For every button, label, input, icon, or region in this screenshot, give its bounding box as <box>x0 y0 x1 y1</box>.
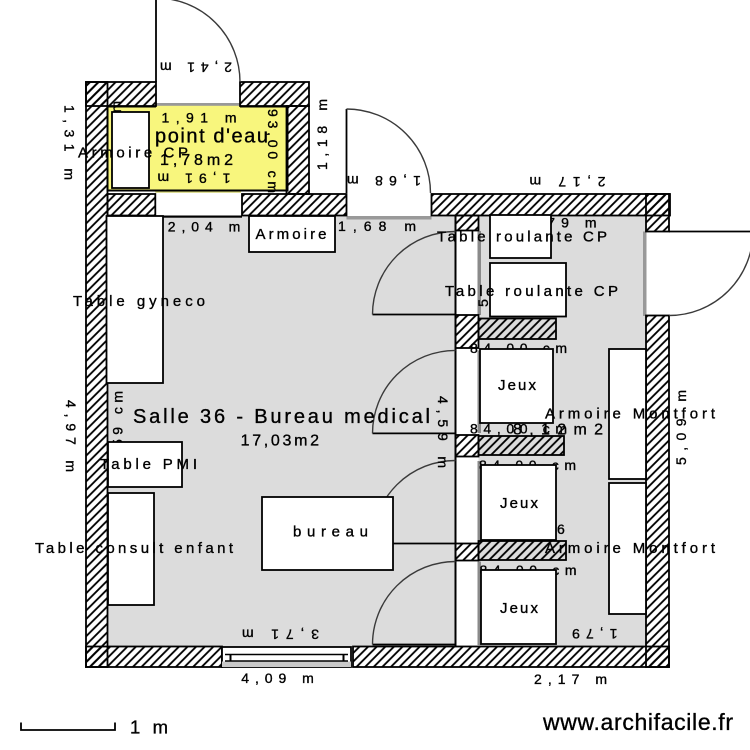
wall: bottom right of window <box>353 647 669 668</box>
furniture: armoire CP box <box>112 112 149 188</box>
door top-left: arc <box>156 0 240 82</box>
door middle 4: leaf <box>373 644 456 646</box>
room floor: point d'eau (yellow) <box>108 106 287 191</box>
door right: arc <box>669 232 750 316</box>
wall: partition band 2 <box>479 436 565 455</box>
furniture: jeux box 1 <box>480 349 553 423</box>
threshold line: middle wall door 2 <box>478 351 482 434</box>
wall: protrusion right <box>287 106 310 194</box>
svg-text:1 m: 1 m <box>130 717 168 738</box>
wall: top-left segment A <box>86 82 156 106</box>
svg-text:Jeux: Jeux <box>500 600 539 617</box>
wall: right below door <box>646 316 669 668</box>
wall: partition band 3 <box>479 541 567 560</box>
yellow room border <box>107 106 289 191</box>
wall: middle stub 2 <box>456 435 479 457</box>
door middle 2: leaf <box>373 432 456 434</box>
svg-text:Salle 36 - Bureau medical: Salle 36 - Bureau medical <box>133 406 430 428</box>
svg-text:Table PMI: Table PMI <box>100 456 197 473</box>
threshold line: top-left exterior door <box>156 103 240 106</box>
door middle 4: arc <box>373 562 456 645</box>
threshold line: middle wall door 3 <box>478 461 482 543</box>
door middle 3: arc <box>373 461 456 544</box>
svg-text:93,00 cm: 93,00 cm <box>265 109 281 193</box>
svg-text:Jeux: Jeux <box>500 495 539 512</box>
furniture: table roulante CP box 2 <box>490 263 566 317</box>
threshold line: middle wall door 4 <box>478 562 482 646</box>
furniture: armoire top box <box>249 216 335 252</box>
wall: below point d'eau left <box>108 194 156 216</box>
room floor: salle 36 main room <box>108 216 456 647</box>
furniture: jeux box 3 <box>481 570 556 644</box>
furniture: table PMI box <box>108 442 182 487</box>
door top-left: leaf <box>155 0 157 82</box>
furniture: armoire montfort box A <box>609 349 646 479</box>
wall: middle wall top segment <box>456 216 479 231</box>
threshold line: passage below point d'eau (dark yellow) <box>155 190 241 193</box>
window in bottom wall <box>222 647 351 667</box>
svg-text:www.archifacile.fr: www.archifacile.fr <box>542 709 733 735</box>
svg-text:Table gyneco: Table gyneco <box>73 293 205 310</box>
door top (1,68m): arc <box>347 109 431 193</box>
wall: below point d'eau right / top main <box>242 194 347 216</box>
door middle 1: arc <box>373 231 456 314</box>
furniture: table roulante CP box 1 <box>490 215 551 258</box>
wall: left exterior <box>86 82 108 667</box>
wall: top-left segment B <box>240 82 309 106</box>
threshold line: middle wall door 1 <box>478 231 482 315</box>
door top (1,68m): leaf <box>346 109 348 193</box>
wall: partition band 1 <box>479 319 557 340</box>
svg-text:6: 6 <box>557 521 565 537</box>
svg-text:Jeux: Jeux <box>498 377 537 394</box>
scale bar <box>21 723 115 731</box>
furniture: bureau box <box>262 497 393 570</box>
room floor: right room (jeux) <box>479 216 647 647</box>
furniture: table gyneco box <box>107 216 164 383</box>
wall: middle stub 1 <box>456 315 479 348</box>
wall: middle stub 3 <box>456 544 479 561</box>
door middle 1: leaf <box>373 314 456 316</box>
svg-text:5: 5 <box>475 299 491 307</box>
door middle 2: arc <box>373 350 456 433</box>
wall: bottom left of window <box>86 647 222 668</box>
threshold line: top door 1,68m <box>347 216 432 220</box>
svg-text:point d'eau: point d'eau <box>155 126 268 148</box>
furniture: table consult enfant box <box>108 493 154 605</box>
wall: right above door <box>646 194 669 232</box>
door middle 3: leaf <box>373 543 456 545</box>
threshold line: passage inner black edge <box>155 216 242 218</box>
furniture: jeux box 2 <box>481 465 556 540</box>
furniture: armoire montfort box B <box>609 483 646 614</box>
wall: top right of door <box>432 194 671 216</box>
wall line: main room right boundary <box>455 216 457 647</box>
door right: leaf <box>669 231 750 233</box>
threshold line: right wall door <box>643 232 647 317</box>
